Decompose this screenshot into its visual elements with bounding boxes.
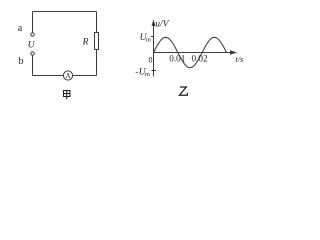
tick -Um — [152, 70, 157, 72]
resistor R — [95, 33, 99, 50]
wire top (circuit 甲) — [33, 11, 97, 13]
svg-text:t/s: t/s — [235, 55, 243, 64]
svg-text:u/V: u/V — [155, 20, 169, 30]
wire bottom left — [33, 75, 64, 77]
wire right upper — [96, 12, 98, 33]
y-axis u/V — [153, 21, 155, 77]
svg-text:b: b — [19, 56, 24, 67]
svg-text:m: m — [145, 71, 150, 78]
svg-text:a: a — [18, 23, 23, 34]
svg-text:0.02: 0.02 — [191, 54, 207, 64]
svg-text:0.01: 0.01 — [169, 54, 185, 64]
terminal b — [31, 52, 34, 55]
svg-text:A: A — [65, 72, 71, 80]
tick Um — [151, 36, 154, 38]
ammeter A1 — [63, 71, 72, 80]
wire left upper (to terminal a) — [32, 12, 34, 33]
svg-text:R: R — [82, 38, 89, 48]
label 乙 (figure B caption, drawn glyph) — [179, 87, 187, 95]
wire left lower (from terminal b) — [32, 55, 34, 75]
label 甲 (figure A caption, drawn glyph) — [64, 91, 70, 100]
wire bottom right — [73, 75, 97, 77]
y-axis arrowhead — [152, 19, 156, 26]
svg-text:0: 0 — [149, 55, 153, 64]
terminal a — [31, 33, 34, 36]
svg-text:m: m — [146, 36, 151, 43]
svg-text:U: U — [28, 41, 36, 51]
x-axis t/s — [154, 52, 232, 54]
sine curve u(t) — [154, 37, 227, 67]
wire right lower — [96, 50, 98, 76]
x-axis arrowhead — [230, 50, 237, 55]
